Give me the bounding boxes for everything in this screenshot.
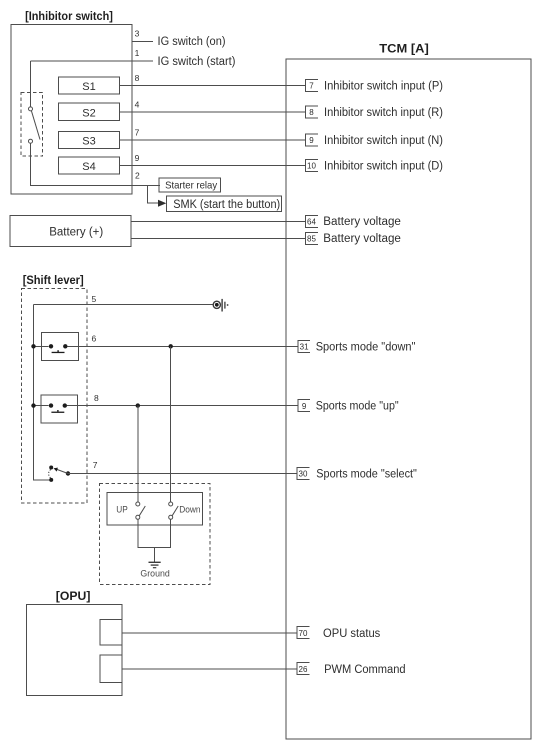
svg-text:S2: S2 [82, 107, 95, 119]
TCM pin 31 [298, 341, 310, 353]
svg-text:S1: S1 [82, 81, 95, 93]
wire S1 to TCM pin 7 [120, 85, 306, 87]
wire pin8 sports mode up [34, 405, 41, 407]
wire battery to TCM pin 64 [131, 220, 305, 222]
svg-text:6: 6 [92, 334, 97, 344]
svg-text:9: 9 [135, 153, 140, 163]
svg-text:8: 8 [94, 393, 99, 403]
inhibitor switch enclosure box [11, 24, 132, 194]
up drop wire [137, 406, 139, 502]
svg-text:S3: S3 [82, 135, 95, 147]
svg-text:Inhibitor switch input (D): Inhibitor switch input (D) [324, 161, 443, 173]
svg-text:Down: Down [179, 505, 200, 516]
battery B+ [10, 216, 131, 247]
up-down switch inner box [107, 493, 203, 525]
UP switch contacts [136, 502, 146, 519]
Down switch contacts [169, 502, 179, 519]
svg-text:Sports mode "up": Sports mode "up" [316, 401, 399, 413]
svg-text:1: 1 [135, 48, 140, 58]
up-down unit dashed box [100, 483, 210, 584]
wire pin3 IG switch (on) [132, 41, 153, 43]
switch S4 [59, 157, 120, 174]
wire OPU status to pin 70 [122, 632, 297, 634]
svg-text:Sports mode "down": Sports mode "down" [316, 341, 416, 353]
svg-text:UP: UP [116, 505, 128, 516]
svg-text:Inhibitor switch input (N): Inhibitor switch input (N) [324, 135, 443, 147]
svg-text:64: 64 [307, 217, 316, 226]
TCM pin 70 [297, 627, 310, 639]
TCM pin 7 [305, 80, 318, 92]
switch S3 [59, 132, 120, 149]
SMK module box [167, 196, 282, 212]
TCM pin 85 [305, 233, 318, 245]
inhibitor switch contact bottom [29, 139, 33, 143]
wire S3 to TCM pin 9 [120, 139, 306, 141]
OPU module box [27, 605, 123, 696]
svg-text:Battery voltage: Battery voltage [323, 233, 401, 245]
shift switch up-contact box [41, 395, 78, 423]
svg-text:[OPU]: [OPU] [56, 589, 91, 603]
svg-text:Battery (+): Battery (+) [49, 226, 103, 238]
shift switch down-contact box [42, 333, 79, 361]
connector terminal symbol on wire 5 [213, 299, 228, 312]
svg-text:IG switch (start): IG switch (start) [158, 56, 236, 68]
wire pin5 [34, 304, 214, 306]
ground stub [154, 548, 156, 562]
switch S1 [59, 77, 120, 94]
svg-text:Inhibitor switch input (R): Inhibitor switch input (R) [324, 107, 443, 119]
svg-text:31: 31 [300, 343, 309, 352]
inhibitor switch contact top [29, 107, 33, 111]
junction wire8-up drop [136, 403, 140, 407]
svg-text:Battery voltage: Battery voltage [323, 216, 401, 228]
wire pin1 vertical to switch [30, 61, 32, 107]
svg-text:[Inhibitor switch]: [Inhibitor switch] [25, 9, 113, 23]
junction bus-wire8 [31, 403, 35, 407]
svg-text:30: 30 [299, 470, 308, 479]
select toggle switch [49, 466, 71, 482]
svg-text:Sports mode "select": Sports mode "select" [316, 469, 417, 481]
junction wire6-down drop [169, 344, 173, 348]
svg-text:85: 85 [307, 235, 316, 244]
svg-text:OPU status: OPU status [323, 628, 381, 640]
junction bus-wire6 [31, 344, 35, 348]
svg-text:Starter relay: Starter relay [165, 179, 218, 191]
wire battery to TCM pin 85 [131, 238, 305, 240]
wire branch to SMK [147, 186, 158, 204]
svg-text:26: 26 [299, 665, 308, 674]
svg-text:8: 8 [135, 73, 140, 83]
svg-text:Ground: Ground [140, 569, 169, 580]
ground return wires [138, 519, 171, 547]
ground symbol [149, 562, 161, 567]
wire pin7 sports mode select [68, 473, 297, 475]
TCM pin 9 sports up [298, 400, 310, 412]
wire pin2 from switch to starter relay [31, 143, 160, 186]
wire S4 to TCM pin 10 [120, 165, 306, 167]
inhibitor switch lever [31, 111, 40, 140]
svg-text:PWM Command: PWM Command [324, 664, 406, 676]
svg-text:2: 2 [135, 170, 140, 180]
svg-text:[Shift lever]: [Shift lever] [23, 273, 84, 287]
arrowhead to SMK [158, 200, 166, 207]
svg-text:70: 70 [299, 629, 308, 638]
OPU connector block 1 [100, 620, 122, 646]
svg-text:8: 8 [309, 108, 314, 117]
svg-text:10: 10 [307, 161, 316, 170]
svg-text:IG switch (on): IG switch (on) [158, 36, 226, 48]
TCM pin 8 [305, 106, 318, 118]
svg-text:Inhibitor switch input (P): Inhibitor switch input (P) [324, 81, 443, 93]
TCM pin 30 [297, 468, 310, 480]
wire PWM command to pin 26 [122, 668, 297, 670]
svg-text:SMK (start the button): SMK (start the button) [173, 199, 280, 211]
TCM pin 9 [305, 134, 318, 146]
TCM pin 64 [305, 216, 318, 228]
TCM pin 10 [305, 160, 318, 172]
down drop wire [170, 346, 172, 502]
svg-text:5: 5 [92, 294, 97, 304]
shift lever common bus [34, 305, 50, 480]
svg-text:3: 3 [135, 29, 140, 39]
shift lever enclosure dashed box [21, 289, 86, 503]
switch S2 [59, 103, 120, 120]
svg-text:S4: S4 [82, 161, 95, 173]
svg-text:9: 9 [302, 402, 307, 411]
svg-text:9: 9 [309, 136, 314, 145]
svg-text:7: 7 [309, 81, 314, 90]
starter relay K1 [159, 178, 221, 192]
wire pin1 IG switch (start) [31, 60, 154, 62]
TCM [A] module box [286, 59, 531, 739]
svg-text:TCM [A]: TCM [A] [379, 41, 429, 55]
svg-text:7: 7 [135, 128, 140, 138]
TCM pin 26 [297, 663, 310, 675]
inhibitor rotary switch dashed outline [21, 92, 42, 156]
svg-text:4: 4 [135, 100, 140, 110]
wire pin6 sports mode down [34, 345, 42, 347]
svg-text:7: 7 [93, 460, 98, 470]
wire S2 to TCM pin 8 [120, 111, 306, 113]
OPU connector block 2 [100, 655, 122, 683]
